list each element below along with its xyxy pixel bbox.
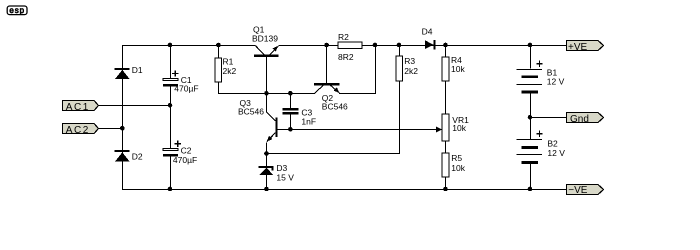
- diode D1: [115, 68, 130, 79]
- svg-text:12 V: 12 V: [547, 148, 565, 158]
- svg-text:AC2: AC2: [66, 125, 90, 136]
- wire Q3 base to VR1 wiper: [278, 129, 438, 131]
- junction -V rail / D3: [264, 187, 269, 192]
- svg-text:R1: R1: [223, 56, 234, 66]
- capacitor C3: [283, 108, 299, 115]
- wire Gnd node to Gnd port: [530, 117, 566, 119]
- svg-text:10k: 10k: [452, 123, 466, 133]
- svg-text:1nF: 1nF: [301, 117, 316, 127]
- svg-text:D1: D1: [132, 65, 143, 75]
- wire R5 bottom lead: [445, 177, 447, 190]
- ESP logo: [7, 6, 27, 15]
- wire left vertical AC2/D1/D2 branch: [122, 45, 124, 190]
- wire feedback node to R3 bottom: [267, 81, 400, 154]
- svg-text:2k2: 2k2: [223, 66, 237, 76]
- wire B2 bottom lead: [530, 164, 532, 190]
- wire D3 bottom lead: [266, 175, 268, 190]
- capacitor C1: [163, 70, 178, 86]
- resistor R2: [338, 42, 362, 49]
- wire C3 top lead: [290, 93, 292, 108]
- svg-text:15 V: 15 V: [276, 172, 294, 182]
- wire R1 bottom lead to Q1 base node: [219, 82, 316, 94]
- wire AC2 input: [98, 128, 123, 130]
- svg-text:470µF: 470µF: [173, 155, 197, 165]
- svg-text:470µF: 470µF: [174, 83, 198, 93]
- svg-text:R2: R2: [338, 32, 349, 42]
- wire +V top rail left segment: [122, 45, 255, 47]
- junction +V rail / R4: [443, 43, 448, 48]
- junction +V rail / C1: [168, 43, 173, 48]
- svg-text:D2: D2: [132, 152, 143, 162]
- junction AC1 / C1-C2: [168, 103, 173, 108]
- svg-text:Gnd: Gnd: [570, 114, 589, 125]
- wire +V top rail right segment (R2 to +VE port): [362, 45, 566, 47]
- transistor Q1: [254, 45, 279, 56]
- wire R4 top lead: [445, 45, 447, 57]
- svg-text:R5: R5: [451, 153, 462, 163]
- junction +V rail / Q2 emitter riser: [373, 43, 378, 48]
- junction Gnd node B1/B2: [528, 115, 533, 120]
- port +VE: [567, 41, 604, 54]
- wire C1 bottom to C2 top: [170, 87, 172, 148]
- svg-text:BD139: BD139: [252, 34, 278, 44]
- wire Q1 base lead down to node: [266, 57, 268, 113]
- wire C2 bottom lead: [170, 156, 172, 190]
- port Gnd: [567, 113, 604, 126]
- wire VR1 bottom to R5 top: [445, 141, 447, 153]
- port AC2: [63, 124, 99, 136]
- transistor Q3: [267, 112, 278, 142]
- transistor Q2: [314, 83, 340, 93]
- junction -V rail / R5: [443, 187, 448, 192]
- resistor R4: [442, 57, 449, 81]
- svg-text:C2: C2: [181, 145, 192, 155]
- junction Q3 emitter / D3 / R3 feedback: [264, 151, 269, 156]
- svg-text:AC1: AC1: [66, 102, 90, 113]
- junction Q3 base / C3 bottom: [288, 127, 293, 132]
- zener diode D3: [259, 166, 274, 175]
- svg-text:12 V: 12 V: [547, 76, 565, 86]
- diode D2: [115, 150, 130, 162]
- wire B1 top lead: [530, 45, 532, 69]
- wire Q3 emitter tail: [266, 143, 268, 155]
- junction -V rail / C2: [168, 187, 173, 192]
- svg-text:8R2: 8R2: [338, 52, 354, 62]
- wire Q2 emitter to rail right of R2: [339, 45, 376, 94]
- wire D3 top lead: [266, 154, 268, 167]
- svg-text:BC546: BC546: [322, 101, 348, 111]
- wire +V top rail middle segment (Q1 emitter to R2): [278, 45, 338, 47]
- capacitor C2: [163, 141, 181, 157]
- wire -V bottom rail: [122, 189, 566, 191]
- wire C1 top lead: [170, 45, 172, 78]
- wire R3 top lead: [399, 45, 401, 56]
- wire AC1 input to C1/C2 junction: [98, 105, 170, 107]
- svg-text:10k: 10k: [451, 64, 465, 74]
- svg-text:B2: B2: [547, 139, 558, 149]
- wire Q2 base lead up to rail: [326, 45, 328, 83]
- junction +V rail / R3: [397, 43, 402, 48]
- port -VE: [567, 185, 604, 197]
- junction AC2 / D1-D2: [120, 126, 125, 131]
- junction C3 top node: [288, 91, 293, 96]
- battery B1: [517, 61, 543, 94]
- battery B2: [517, 131, 543, 164]
- wire B1 bottom lead: [530, 93, 532, 117]
- diode D4: [425, 40, 436, 50]
- svg-text:10k: 10k: [451, 163, 465, 173]
- resistor R3: [396, 56, 402, 81]
- potentiometer VR1: [436, 114, 449, 141]
- junction +V rail / R1: [216, 43, 221, 48]
- svg-text:+VE: +VE: [568, 42, 588, 53]
- junction Q1 base node: [264, 91, 269, 96]
- svg-text:D4: D4: [422, 27, 433, 37]
- wire R1 top lead: [218, 45, 220, 58]
- svg-text:2k2: 2k2: [404, 66, 418, 76]
- junction -V rail / B2: [528, 187, 533, 192]
- svg-text:R3: R3: [404, 56, 415, 66]
- svg-text:BC546: BC546: [238, 107, 264, 117]
- junction +V rail / Q2 base: [324, 43, 329, 48]
- resistor R5: [442, 153, 449, 177]
- resistor R1: [215, 58, 222, 82]
- wire B2 top lead: [530, 118, 532, 140]
- port AC1: [63, 101, 99, 113]
- wire R4 bottom to VR1 top: [445, 81, 447, 114]
- svg-text:−VE: −VE: [568, 185, 588, 196]
- svg-text:esp: esp: [9, 6, 25, 15]
- wire C3 bottom lead: [290, 115, 292, 130]
- junction +V rail / B1: [528, 43, 533, 48]
